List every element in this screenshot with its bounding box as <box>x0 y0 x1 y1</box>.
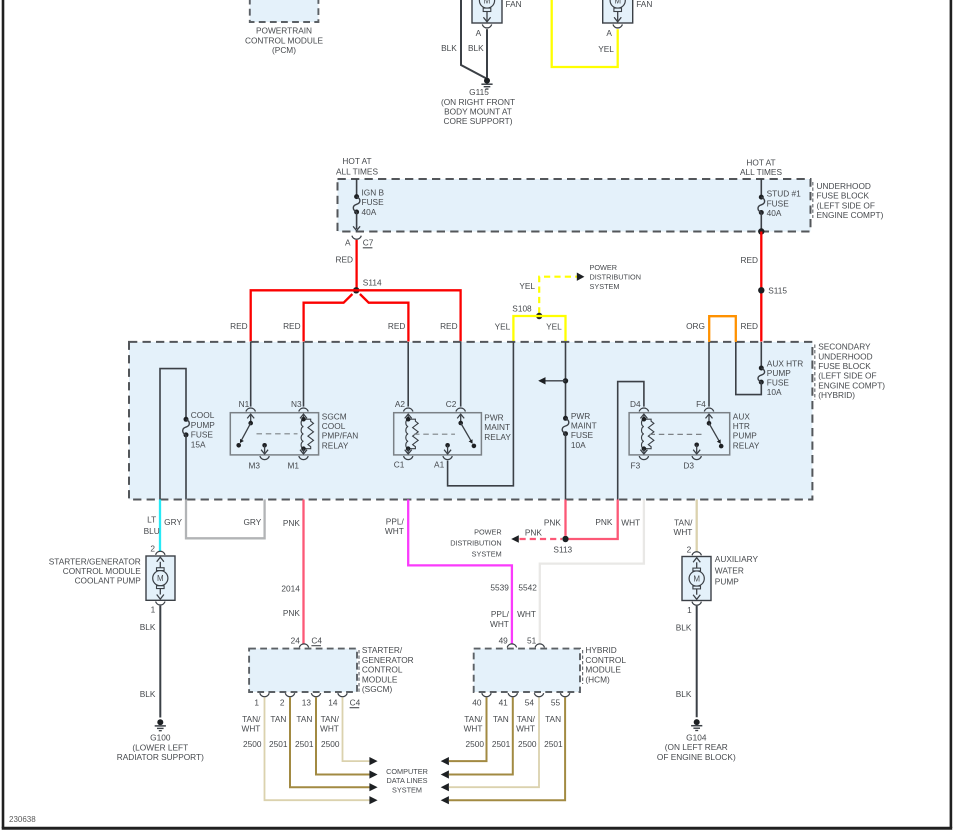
svg-text:M1: M1 <box>287 461 299 471</box>
svg-text:GENERATOR: GENERATOR <box>362 655 414 665</box>
svg-text:A: A <box>606 28 612 38</box>
svg-text:HTR: HTR <box>733 421 750 431</box>
svg-text:CONTROL: CONTROL <box>585 655 626 665</box>
SGCM pin 13 <box>311 693 320 697</box>
HCM pin 40 <box>482 693 491 697</box>
ground G115 <box>484 78 490 84</box>
svg-text:WHT: WHT <box>464 724 483 734</box>
svg-text:WHT: WHT <box>517 609 536 619</box>
junction to power distribution <box>563 378 568 383</box>
svg-text:HOT AT: HOT AT <box>746 157 775 167</box>
pin C2 <box>456 408 465 412</box>
splice S108 <box>536 313 542 319</box>
svg-text:(LEFT SIDE OF: (LEFT SIDE OF <box>818 371 876 381</box>
pin F3 <box>639 456 648 460</box>
svg-text:BLK: BLK <box>676 622 692 632</box>
svg-text:PPL/: PPL/ <box>491 609 510 619</box>
svg-text:5539: 5539 <box>490 583 509 593</box>
svg-text:2501: 2501 <box>492 739 511 749</box>
wire BLK aux pump to G104 <box>696 606 698 718</box>
svg-text:1: 1 <box>687 605 692 615</box>
svg-text:S114: S114 <box>363 278 382 288</box>
svg-text:TAN: TAN <box>545 714 561 724</box>
svg-text:2501: 2501 <box>295 739 314 749</box>
svg-text:WHT: WHT <box>621 517 640 527</box>
svg-text:F3: F3 <box>631 461 641 471</box>
svg-text:BLK: BLK <box>468 43 484 53</box>
svg-text:FUSE: FUSE <box>767 378 790 388</box>
svg-text:WHT: WHT <box>516 724 535 734</box>
svg-text:WHT: WHT <box>490 619 509 629</box>
wire PNK dashed ref <box>520 538 563 540</box>
wire N1 feeder (inside block) <box>250 342 252 407</box>
svg-text:M: M <box>484 0 491 6</box>
fan (right) pin A connector <box>613 24 622 28</box>
svg-text:G100: G100 <box>150 733 171 743</box>
pin M1 <box>299 456 308 460</box>
pin M3 <box>262 443 267 448</box>
secondary underhood fuse block box <box>129 342 812 500</box>
ground G100 <box>157 719 163 725</box>
wire TAN 2501 SGCM pin 13 <box>316 697 370 774</box>
pin D4 <box>639 408 648 412</box>
svg-text:CONTROL MODULE: CONTROL MODULE <box>245 35 324 45</box>
relay2 switch <box>460 415 462 423</box>
fuse IGN B 40A <box>356 179 358 197</box>
svg-text:2: 2 <box>150 544 155 554</box>
wire TAN/WHT 2500 HCM pin 54 <box>449 697 539 787</box>
svg-text:A: A <box>476 28 482 38</box>
svg-text:SYSTEM: SYSTEM <box>392 786 422 795</box>
svg-text:PNK: PNK <box>525 527 543 537</box>
svg-text:51: 51 <box>527 636 537 646</box>
svg-text:40A: 40A <box>362 207 377 217</box>
relay1 coil with resistor <box>303 415 305 419</box>
wire PNK M1 to SGCM pin 24 <box>302 500 304 644</box>
svg-text:ALL TIMES: ALL TIMES <box>740 167 782 177</box>
svg-text:F4: F4 <box>696 399 706 409</box>
svg-text:YEL: YEL <box>598 44 614 54</box>
svg-text:N3: N3 <box>291 399 302 409</box>
wire TAN 2500 HCM pin 40 <box>449 697 487 761</box>
svg-text:C1: C1 <box>394 460 405 470</box>
wire TAN/WHT 2500 SGCM pin 14 <box>343 697 370 761</box>
HCM pin 49 <box>507 644 516 648</box>
svg-text:1: 1 <box>254 698 259 708</box>
svg-text:IGN B: IGN B <box>362 188 385 198</box>
svg-text:S108: S108 <box>512 304 532 314</box>
pin A1 <box>445 443 450 448</box>
wire BLK coolant pump to G100 <box>159 606 161 718</box>
svg-text:TAN/: TAN/ <box>517 714 536 724</box>
fuse AUX HTR PUMP 10A <box>760 342 762 368</box>
pin C1 <box>404 456 413 460</box>
pin N3 <box>299 408 308 412</box>
wire YEL fan to offpage <box>552 0 618 67</box>
svg-text:BLK: BLK <box>140 689 156 699</box>
ref arrow from S113 <box>511 535 519 542</box>
svg-text:STARTER/GENERATOR: STARTER/GENERATOR <box>49 556 141 566</box>
svg-text:PNK: PNK <box>544 517 562 527</box>
aux pump pin 1 <box>692 602 701 606</box>
svg-text:55: 55 <box>551 698 561 708</box>
wire TAN/WHT 2500 SGCM pin 1 <box>265 697 370 800</box>
svg-text:ALL TIMES: ALL TIMES <box>336 166 378 176</box>
svg-text:TAN/: TAN/ <box>674 517 693 527</box>
wire RED STUD#1 to secondary block <box>760 232 762 342</box>
svg-text:PWR: PWR <box>484 413 503 423</box>
svg-text:FUSE BLOCK: FUSE BLOCK <box>817 191 870 201</box>
svg-text:RED: RED <box>440 321 458 331</box>
svg-text:POWERTRAIN: POWERTRAIN <box>256 26 312 36</box>
relay SGCM COOL PMP/FAN RELAY box <box>230 413 318 455</box>
svg-text:230638: 230638 <box>9 815 36 824</box>
wire TAN/WHT D3 to auxiliary water pump <box>696 500 698 552</box>
svg-text:RED: RED <box>388 321 406 331</box>
svg-text:S115: S115 <box>768 285 787 295</box>
svg-text:SYSTEM: SYSTEM <box>472 550 502 559</box>
svg-text:LT: LT <box>147 514 156 524</box>
svg-text:CONTROL MODULE: CONTROL MODULE <box>63 566 142 576</box>
svg-text:C4: C4 <box>350 698 361 708</box>
svg-text:2501: 2501 <box>544 739 563 749</box>
svg-text:(LEFT SIDE OF: (LEFT SIDE OF <box>817 200 875 210</box>
svg-text:(LOWER LEFT: (LOWER LEFT <box>132 742 188 752</box>
svg-text:TAN/: TAN/ <box>321 714 340 724</box>
svg-text:2: 2 <box>280 698 285 708</box>
wire TAN 2501 SGCM pin 2 <box>290 697 370 787</box>
svg-text:COMPUTER: COMPUTER <box>386 767 428 776</box>
svg-text:TAN: TAN <box>296 714 312 724</box>
wire PPL/WHT C1 to HCM pin 49 <box>408 500 512 644</box>
svg-text:PWR: PWR <box>571 411 590 421</box>
svg-text:(SGCM): (SGCM) <box>362 684 393 694</box>
connector C7 pin A <box>352 236 361 240</box>
relay1 switch <box>250 415 252 423</box>
svg-text:STUD #1: STUD #1 <box>767 189 802 199</box>
pin D3 <box>694 443 699 448</box>
svg-text:(PCM): (PCM) <box>272 45 296 55</box>
HCM pin 51 <box>535 644 544 648</box>
svg-text:BLK: BLK <box>140 622 156 632</box>
svg-text:PUMP: PUMP <box>733 431 757 441</box>
relay3 coil with resistor <box>643 415 645 419</box>
svg-text:(ON LEFT REAR: (ON LEFT REAR <box>665 742 728 752</box>
svg-text:COOLANT PUMP: COOLANT PUMP <box>75 576 142 586</box>
svg-text:WHT: WHT <box>385 526 404 536</box>
pin A2 <box>404 408 413 412</box>
wire A1 to YEL feeder (inside block) <box>448 342 514 486</box>
ground G104 <box>694 719 700 725</box>
svg-text:WATER: WATER <box>715 565 744 575</box>
svg-text:HYBRID: HYBRID <box>585 645 616 655</box>
svg-text:FUSE: FUSE <box>362 197 385 207</box>
svg-text:WHT: WHT <box>241 724 260 734</box>
junction at fuse block edge <box>758 228 764 234</box>
svg-text:40: 40 <box>472 698 482 708</box>
svg-text:CONTROL: CONTROL <box>362 665 403 675</box>
fuse STUD #1 40A <box>760 179 762 197</box>
svg-text:FUSE: FUSE <box>571 430 594 440</box>
svg-text:PUMP: PUMP <box>191 420 215 430</box>
svg-text:PUMP: PUMP <box>767 368 791 378</box>
svg-text:2501: 2501 <box>269 739 288 749</box>
svg-text:MAINT: MAINT <box>571 421 597 431</box>
svg-text:RED: RED <box>335 254 353 264</box>
svg-text:YEL: YEL <box>519 281 535 291</box>
pin F4 <box>704 408 713 412</box>
svg-text:13: 13 <box>302 698 312 708</box>
svg-text:(ON RIGHT FRONT: (ON RIGHT FRONT <box>441 97 515 107</box>
svg-text:FUSE: FUSE <box>191 430 214 440</box>
ref arrow to power distribution system <box>577 273 585 281</box>
wire YEL from S108 into block <box>513 316 565 342</box>
svg-text:M3: M3 <box>248 461 260 471</box>
svg-text:24: 24 <box>291 636 301 646</box>
SGCM pin 14 <box>338 693 347 697</box>
wire TAN 2501 HCM pin 55 <box>449 697 565 800</box>
svg-text:DISTRIBUTION: DISTRIBUTION <box>590 272 641 281</box>
svg-text:STARTER/: STARTER/ <box>362 645 403 655</box>
svg-text:SECONDARY: SECONDARY <box>818 342 871 352</box>
svg-text:2: 2 <box>687 544 692 554</box>
svg-text:COOL: COOL <box>191 410 215 420</box>
svg-text:ENGINE COMPT): ENGINE COMPT) <box>817 210 884 220</box>
auxiliary water pump <box>692 552 701 556</box>
HCM label <box>582 650 584 684</box>
wire RED bus from S114 <box>251 290 461 341</box>
svg-text:WHT: WHT <box>673 527 692 537</box>
svg-text:MODULE: MODULE <box>362 674 398 684</box>
relay2 divider <box>414 433 455 435</box>
starter/generator control module (SGCM) box <box>249 649 357 692</box>
svg-text:14: 14 <box>328 698 338 708</box>
svg-text:2500: 2500 <box>518 739 537 749</box>
fan motor (right) FAN <box>603 0 633 23</box>
svg-text:SYSTEM: SYSTEM <box>590 282 620 291</box>
svg-text:RED: RED <box>740 321 758 331</box>
splice S115 <box>758 287 764 293</box>
relay3 divider <box>650 433 705 435</box>
wire BLK (left) to G115 <box>461 0 486 78</box>
svg-text:RELAY: RELAY <box>733 440 760 450</box>
wire WHT F3 to HCM pin 51 <box>540 500 644 644</box>
internal wire to cool pump fuse <box>160 369 186 500</box>
svg-text:AUX: AUX <box>733 411 751 421</box>
svg-text:GRY: GRY <box>243 517 261 527</box>
svg-text:CORE SUPPORT): CORE SUPPORT) <box>444 116 513 126</box>
svg-text:2500: 2500 <box>321 739 340 749</box>
wire BLK fan A to G115 <box>486 29 488 78</box>
svg-text:FUSE: FUSE <box>767 198 790 208</box>
svg-text:RELAY: RELAY <box>484 432 511 442</box>
svg-text:PMP/FAN: PMP/FAN <box>322 431 358 441</box>
svg-text:RED: RED <box>740 255 758 265</box>
svg-text:BLK: BLK <box>441 43 457 53</box>
svg-text:DISTRIBUTION: DISTRIBUTION <box>450 539 501 548</box>
svg-text:2014: 2014 <box>281 584 300 594</box>
wire RED C7 to S114 <box>355 240 357 288</box>
svg-text:RADIATOR SUPPORT): RADIATOR SUPPORT) <box>117 752 204 762</box>
svg-text:RED: RED <box>283 321 301 331</box>
wire F4 feeder (inside block) <box>708 342 710 407</box>
svg-text:(HCM): (HCM) <box>585 674 610 684</box>
wire ORG loop above block <box>709 316 736 342</box>
powertrain control module (PCM) box <box>250 0 319 22</box>
svg-text:GRY: GRY <box>164 517 182 527</box>
svg-text:M: M <box>614 0 621 6</box>
svg-text:C2: C2 <box>446 399 457 409</box>
svg-text:10A: 10A <box>571 440 586 450</box>
wire C2 feeder (inside block) <box>460 342 462 407</box>
svg-text:54: 54 <box>525 698 535 708</box>
svg-text:ENGINE COMPT): ENGINE COMPT) <box>818 380 885 390</box>
starter/generator control module coolant pump <box>156 551 165 555</box>
SGCM pin 24 connector C4 <box>299 644 308 648</box>
svg-text:C7: C7 <box>363 238 374 248</box>
svg-text:G104: G104 <box>686 733 707 743</box>
SGCM label <box>358 650 360 694</box>
svg-text:FAN: FAN <box>636 0 652 9</box>
svg-text:FUSE BLOCK: FUSE BLOCK <box>818 361 871 371</box>
data line arrows (right-pointing) <box>369 757 377 765</box>
svg-text:DATA LINES: DATA LINES <box>386 776 427 785</box>
wire PWR MAINT FUSE feeder (inside block) <box>565 342 567 418</box>
svg-text:PNK: PNK <box>595 517 613 527</box>
secondary fuse block label <box>814 345 816 401</box>
HCM pin 55 <box>560 693 569 697</box>
svg-text:(HYBRID): (HYBRID) <box>818 390 855 400</box>
wire PNK PWR MAINT FUSE to S113 <box>564 500 566 537</box>
svg-text:YEL: YEL <box>546 321 562 331</box>
svg-text:UNDERHOOD: UNDERHOOD <box>817 181 871 191</box>
svg-text:D3: D3 <box>683 461 694 471</box>
splice S113 <box>562 536 568 542</box>
svg-text:TAN/: TAN/ <box>242 714 261 724</box>
wire N3 feeder (inside block) <box>303 342 305 407</box>
splice S114 <box>353 287 359 293</box>
data line arrows (left-pointing) <box>441 757 449 765</box>
SGCM pin 2 <box>285 693 294 697</box>
page frame <box>2 0 5 828</box>
svg-text:PPL/: PPL/ <box>386 517 405 527</box>
svg-text:15A: 15A <box>191 439 206 449</box>
svg-text:C4: C4 <box>311 636 322 646</box>
svg-text:RELAY: RELAY <box>322 440 349 450</box>
svg-text:49: 49 <box>499 636 509 646</box>
pin N1 <box>246 408 255 412</box>
fuse COOL PUMP 15A <box>184 417 189 422</box>
svg-text:TAN: TAN <box>270 714 286 724</box>
svg-text:G115: G115 <box>469 87 489 97</box>
svg-text:POWER: POWER <box>474 528 502 537</box>
svg-text:M: M <box>693 574 700 583</box>
svg-text:RED: RED <box>230 321 248 331</box>
svg-text:BODY MOUNT AT: BODY MOUNT AT <box>444 107 512 117</box>
svg-text:10A: 10A <box>767 387 782 397</box>
svg-text:AUX HTR: AUX HTR <box>767 358 803 368</box>
wire YEL dashed to power distribution <box>539 277 577 314</box>
wire D4 feeder (inside block) <box>618 382 644 500</box>
svg-text:D4: D4 <box>630 399 641 409</box>
svg-text:TAN/: TAN/ <box>464 714 483 724</box>
wire LT BLU to coolant pump <box>159 500 161 552</box>
svg-text:1: 1 <box>151 604 156 614</box>
svg-text:ORG: ORG <box>686 321 705 331</box>
svg-text:A2: A2 <box>395 399 406 409</box>
underhood fuse block label <box>812 182 814 218</box>
svg-text:A: A <box>345 238 351 248</box>
svg-text:40A: 40A <box>767 208 782 218</box>
svg-text:M: M <box>157 574 164 583</box>
relay PWR MAINT RELAY box <box>394 413 482 455</box>
svg-text:A1: A1 <box>434 460 445 470</box>
coolant pump pin 1 <box>156 602 165 606</box>
relay1 divider <box>257 433 298 435</box>
svg-text:2500: 2500 <box>466 739 485 749</box>
svg-text:N1: N1 <box>239 399 250 409</box>
svg-text:YEL: YEL <box>495 321 511 331</box>
wire A2 feeder (inside block) <box>407 342 409 407</box>
HCM pin 54 <box>534 693 543 697</box>
HCM pin 41 <box>508 693 517 697</box>
svg-text:POWER: POWER <box>590 263 618 272</box>
hybrid control module (HCM) box <box>474 649 580 692</box>
svg-text:BLU: BLU <box>144 526 160 536</box>
wire GRY loop M3 to fuse <box>186 500 265 539</box>
SGCM pin 1 <box>260 693 269 697</box>
svg-text:S113: S113 <box>553 545 572 555</box>
fan motor (left) FAN <box>472 0 502 23</box>
underhood fuse block box <box>338 179 811 232</box>
fan (left) pin A connector <box>482 24 491 28</box>
svg-text:2500: 2500 <box>243 739 262 749</box>
svg-text:COOL: COOL <box>322 421 346 431</box>
svg-text:TAN: TAN <box>493 714 509 724</box>
fuse PWR MAINT 10A <box>563 416 568 421</box>
svg-text:SGCM: SGCM <box>322 411 347 421</box>
svg-text:UNDERHOOD: UNDERHOOD <box>818 351 872 361</box>
svg-text:WHT: WHT <box>320 724 339 734</box>
svg-text:MAINT: MAINT <box>484 422 510 432</box>
relay AUX HTR PUMP RELAY box <box>629 413 730 455</box>
svg-text:AUXILIARY: AUXILIARY <box>715 554 759 564</box>
svg-text:FAN: FAN <box>506 0 522 9</box>
svg-text:BLK: BLK <box>676 689 692 699</box>
svg-text:PNK: PNK <box>283 608 301 618</box>
wire TAN 2501 HCM pin 41 <box>449 697 513 774</box>
relay3 switch <box>708 415 710 423</box>
svg-text:41: 41 <box>499 698 509 708</box>
wire PNK S113 to D4 feeder <box>569 500 618 540</box>
svg-text:5542: 5542 <box>518 583 537 593</box>
svg-text:PUMP: PUMP <box>715 576 739 586</box>
svg-text:PNK: PNK <box>283 518 301 528</box>
relay2 coil with resistor <box>407 415 409 419</box>
svg-text:MODULE: MODULE <box>585 665 621 675</box>
svg-text:HOT AT: HOT AT <box>342 156 371 166</box>
svg-text:OF ENGINE BLOCK): OF ENGINE BLOCK) <box>657 752 736 762</box>
